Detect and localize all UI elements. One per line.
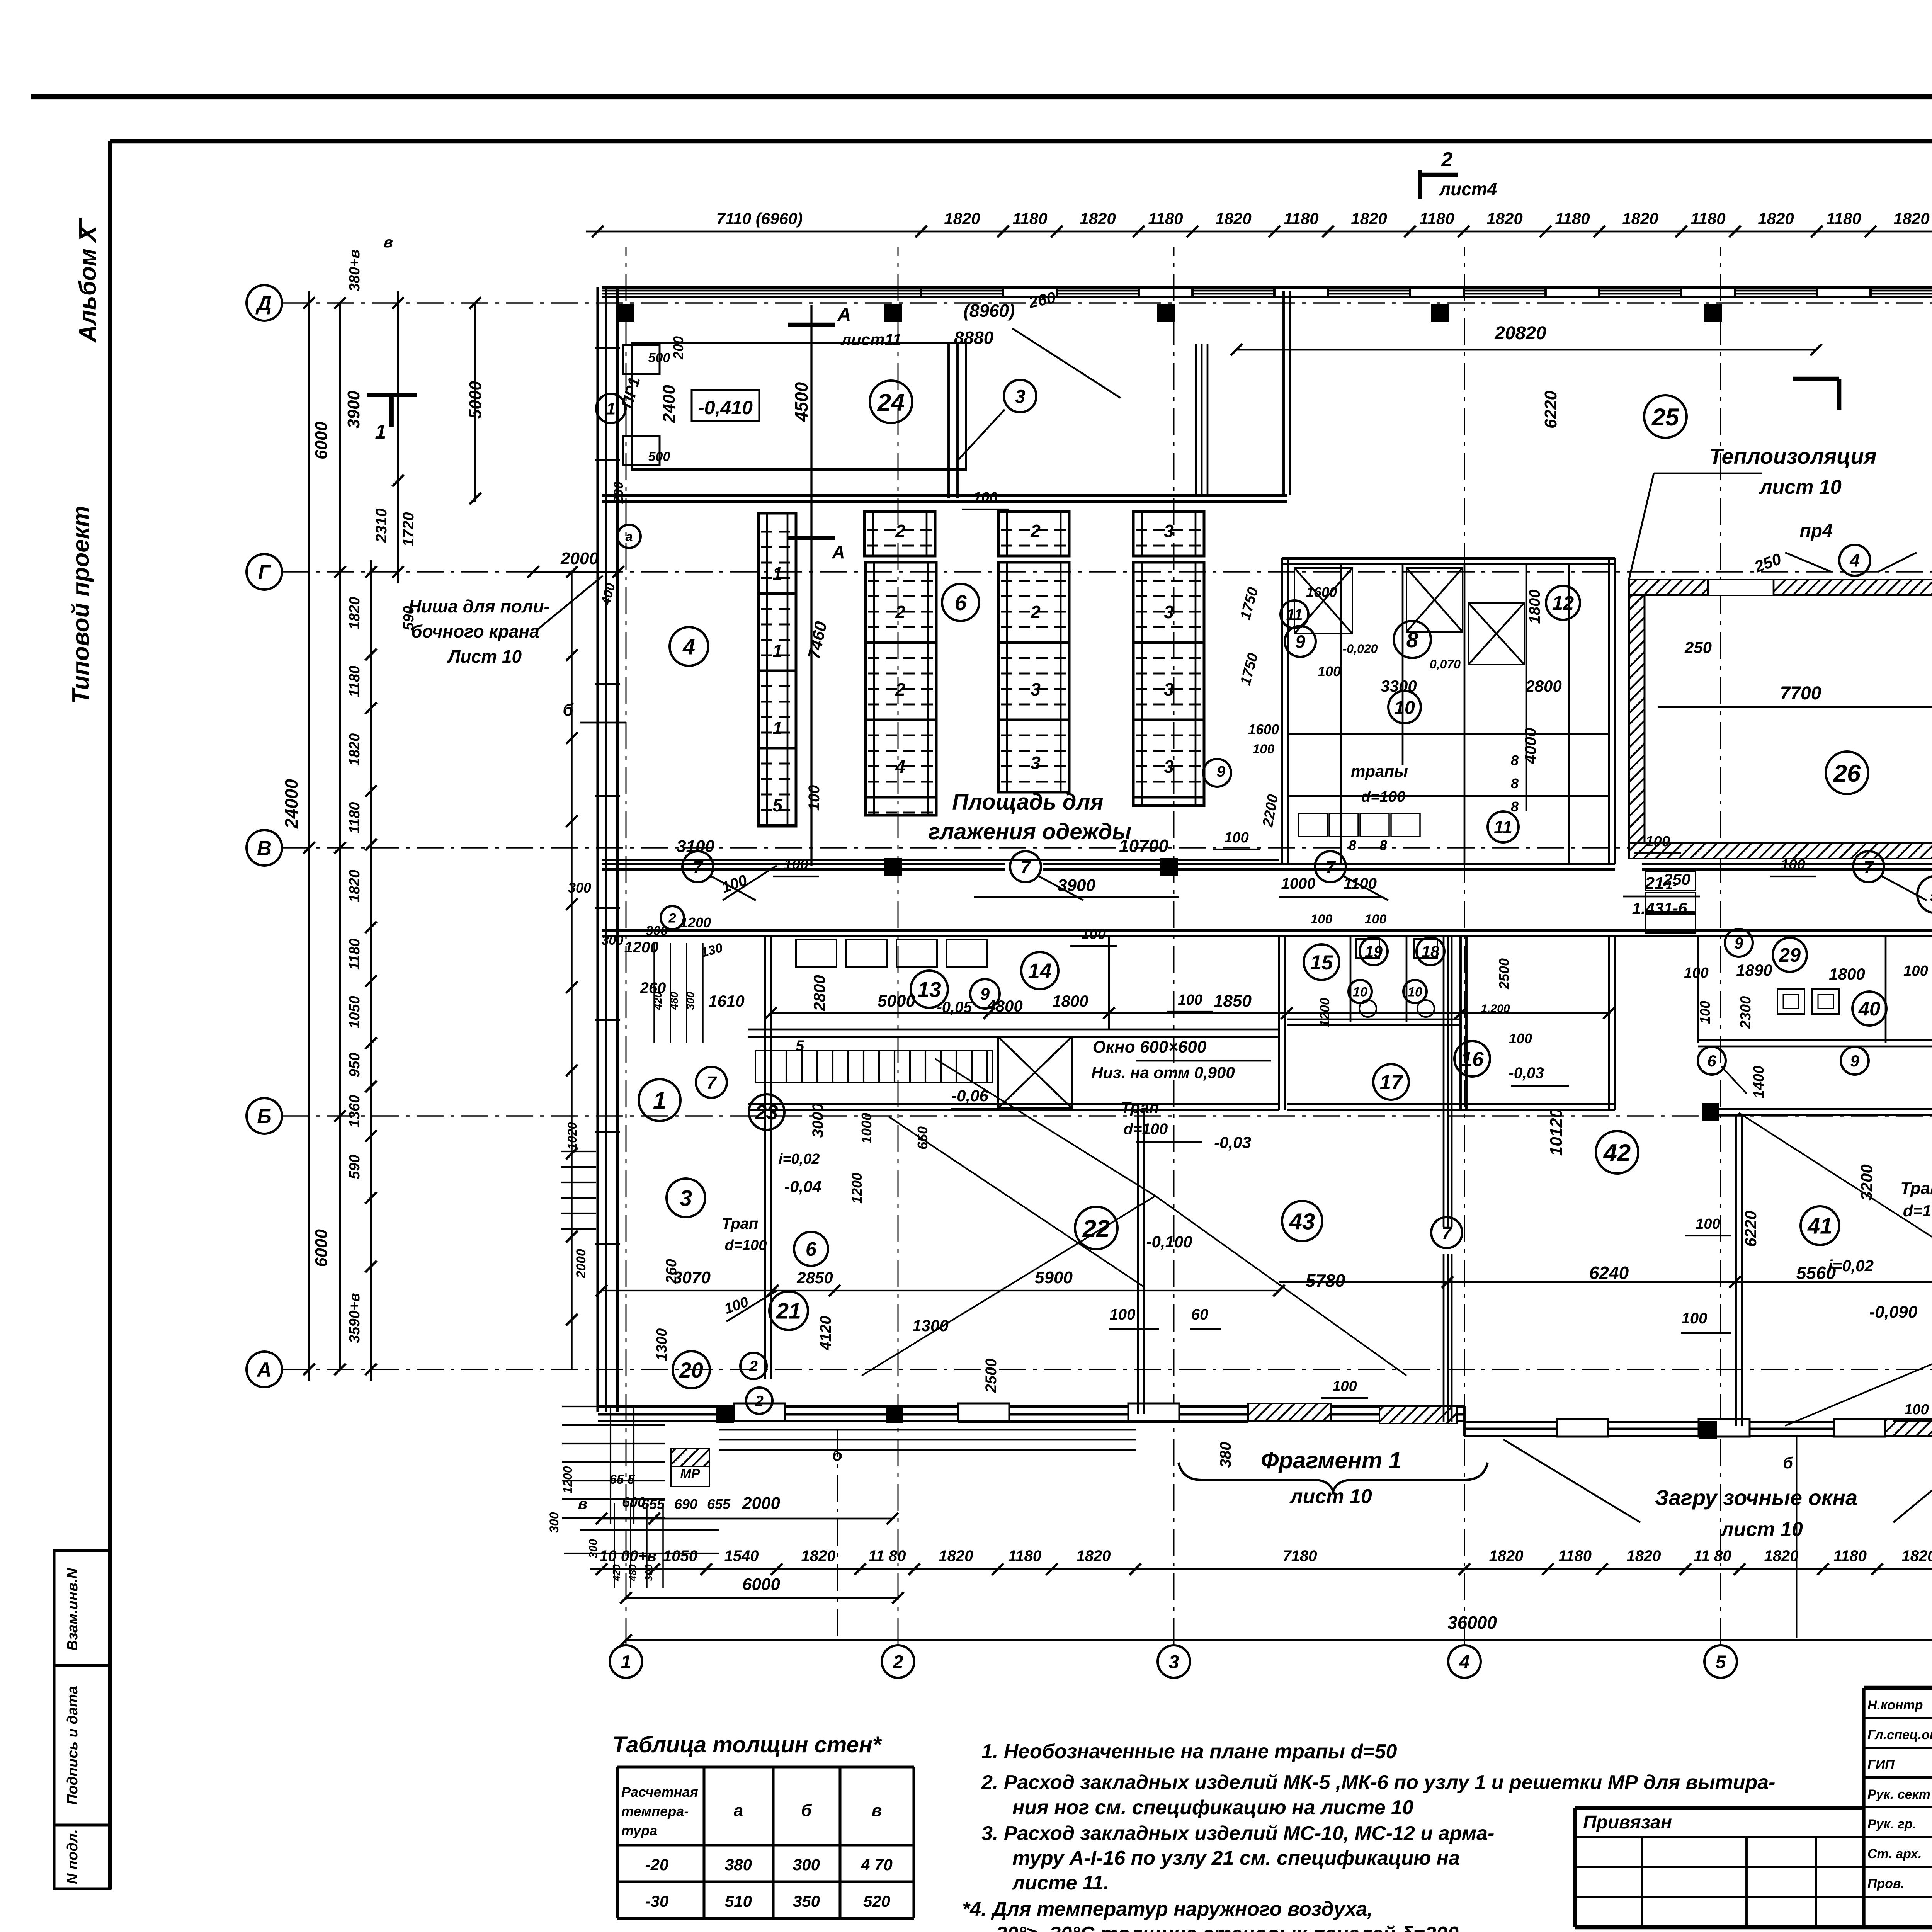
svg-text:300: 300 bbox=[587, 1539, 600, 1558]
sink row room 13 bbox=[796, 940, 837, 967]
svg-text:1180: 1180 bbox=[1833, 1548, 1867, 1565]
top exterior wall glazing band bbox=[602, 286, 1932, 289]
svg-text:2: 2 bbox=[1030, 602, 1041, 622]
top dimension chain bbox=[586, 231, 1932, 233]
svg-text:1180: 1180 bbox=[347, 666, 363, 697]
svg-text:Окно 600×600: Окно 600×600 bbox=[1093, 1037, 1207, 1056]
svg-text:20820: 20820 bbox=[1494, 323, 1546, 344]
svg-text:8: 8 bbox=[1406, 628, 1418, 652]
svg-text:600: 600 bbox=[622, 1494, 645, 1510]
svg-text:100: 100 bbox=[1332, 1378, 1357, 1395]
svg-text:2: 2 bbox=[749, 1358, 758, 1375]
svg-text:7700: 7700 bbox=[1780, 683, 1821, 704]
svg-text:2850: 2850 bbox=[796, 1269, 833, 1287]
bottom chain row B 6000 bbox=[626, 1597, 898, 1599]
wall between halls and room 25 bbox=[1282, 291, 1285, 495]
svg-text:Д: Д bbox=[255, 292, 272, 315]
svg-text:65 5: 65 5 bbox=[609, 1472, 635, 1487]
svg-text:15: 15 bbox=[1310, 951, 1333, 974]
svg-text:А: А bbox=[832, 542, 845, 562]
svg-text:10: 10 bbox=[1408, 985, 1422, 999]
svg-text:1: 1 bbox=[772, 718, 782, 738]
room circles 15-19 bbox=[1304, 944, 1339, 980]
svg-text:-20: -20 bbox=[645, 1855, 669, 1874]
axis letter A bbox=[247, 1352, 282, 1387]
svg-text:1180: 1180 bbox=[347, 939, 363, 970]
svg-text:8880: 8880 bbox=[954, 328, 994, 348]
svg-text:100: 100 bbox=[1904, 1401, 1929, 1418]
svg-text:2800: 2800 bbox=[1525, 677, 1561, 695]
svg-text:2300: 2300 bbox=[1738, 996, 1754, 1029]
svg-text:6000: 6000 bbox=[312, 422, 331, 459]
svg-text:1800: 1800 bbox=[1526, 590, 1543, 624]
svg-text:10 00+в: 10 00+в bbox=[599, 1548, 656, 1565]
svg-text:4500: 4500 bbox=[791, 382, 811, 422]
svg-text:i=0,02: i=0,02 bbox=[1828, 1257, 1874, 1275]
svg-text:ГИП: ГИП bbox=[1867, 1757, 1895, 1772]
svg-text:(8960): (8960) bbox=[964, 301, 1015, 321]
svg-text:43: 43 bbox=[1289, 1209, 1315, 1235]
svg-text:1200: 1200 bbox=[561, 1466, 575, 1493]
svg-text:1820: 1820 bbox=[1622, 209, 1658, 228]
svg-text:Г: Г bbox=[258, 561, 272, 584]
svg-text:1050: 1050 bbox=[347, 996, 363, 1029]
svg-text:7: 7 bbox=[706, 1073, 717, 1093]
svg-text:6220: 6220 bbox=[1742, 1211, 1760, 1247]
svg-text:100: 100 bbox=[784, 857, 808, 873]
room circles lower-left bbox=[911, 971, 948, 1008]
svg-text:6: 6 bbox=[955, 591, 967, 615]
svg-text:42: 42 bbox=[1603, 1139, 1631, 1167]
svg-text:Трап: Трап bbox=[1900, 1179, 1932, 1198]
svg-text:3: 3 bbox=[1164, 602, 1174, 622]
svg-text:2800: 2800 bbox=[810, 975, 828, 1011]
svg-text:2: 2 bbox=[895, 679, 905, 699]
ramp marks lower middle bbox=[958, 1421, 1248, 1423]
svg-text:3: 3 bbox=[1015, 386, 1026, 407]
svg-text:41: 41 bbox=[1807, 1214, 1832, 1239]
svg-text:ния ног см. спецификацию на л: ния ног см. спецификацию на листе 10 bbox=[1012, 1796, 1413, 1819]
mid dim line lower bbox=[1279, 1281, 1932, 1283]
svg-text:300: 300 bbox=[684, 992, 696, 1010]
svg-text:1,200: 1,200 bbox=[1481, 1002, 1510, 1015]
svg-text:Подпись и дата: Подпись и дата bbox=[65, 1686, 81, 1805]
svg-text:Рук. гр.: Рук. гр. bbox=[1867, 1817, 1916, 1832]
svg-text:10: 10 bbox=[1353, 985, 1367, 999]
title block outer bbox=[1864, 1686, 1932, 1690]
svg-text:2. Расход закладных изделий МК: 2. Расход закладных изделий МК-5 ,МК-6 п… bbox=[981, 1771, 1775, 1794]
svg-text:60: 60 bbox=[1191, 1306, 1209, 1323]
svg-text:8: 8 bbox=[1511, 776, 1519, 791]
svg-text:1: 1 bbox=[772, 641, 782, 661]
room 41 top wall bbox=[1719, 1108, 1932, 1110]
svg-text:8: 8 bbox=[1511, 799, 1519, 815]
svg-text:7: 7 bbox=[1864, 857, 1874, 877]
left middle chain window dims bbox=[370, 560, 372, 1381]
svg-text:1: 1 bbox=[621, 1651, 631, 1672]
svg-text:25: 25 bbox=[1651, 404, 1679, 431]
room 24 bbox=[632, 343, 966, 469]
crossed box near stairs bbox=[998, 1037, 1072, 1108]
bottom chain row A bbox=[590, 1568, 1932, 1570]
svg-text:б: б bbox=[1783, 1454, 1793, 1472]
svg-text:темпера-: темпера- bbox=[621, 1803, 689, 1819]
svg-text:4: 4 bbox=[682, 635, 695, 660]
svg-text:Рук. сект: Рук. сект bbox=[1867, 1787, 1930, 1802]
svg-text:100: 100 bbox=[1318, 663, 1341, 679]
svg-text:2: 2 bbox=[895, 602, 905, 622]
corridor wall y2674 bbox=[748, 1029, 1279, 1031]
pier right of room 24 bbox=[947, 344, 950, 498]
bottom axis circles 1-7 bbox=[610, 1645, 642, 1678]
svg-text:1800: 1800 bbox=[1829, 965, 1865, 983]
svg-text:-20°≥ -30°С толщина стеновых п: -20°≥ -30°С толщина стеновых панелей δ=3… bbox=[989, 1923, 1464, 1932]
svg-text:1000: 1000 bbox=[859, 1113, 874, 1144]
svg-text:3: 3 bbox=[1031, 753, 1041, 773]
svg-text:2: 2 bbox=[1030, 521, 1041, 541]
svg-text:-0,410: -0,410 bbox=[698, 397, 753, 418]
svg-text:лист11: лист11 bbox=[840, 330, 901, 349]
svg-text:380: 380 bbox=[725, 1855, 752, 1874]
svg-text:2: 2 bbox=[893, 1651, 903, 1672]
axis letter V bbox=[247, 830, 282, 866]
bottom chain row C 36000 bbox=[626, 1639, 1932, 1641]
svg-text:3: 3 bbox=[1164, 757, 1174, 777]
room 12 cell strip bbox=[1645, 871, 1696, 891]
svg-text:7110 (6960): 7110 (6960) bbox=[716, 209, 803, 228]
svg-text:1600: 1600 bbox=[1306, 584, 1337, 600]
svg-text:1180: 1180 bbox=[1008, 1548, 1041, 1565]
svg-text:100: 100 bbox=[1311, 912, 1333, 927]
svg-text:Трап: Трап bbox=[722, 1215, 759, 1232]
svg-text:11 80: 11 80 bbox=[868, 1548, 906, 1565]
porch pads top left bbox=[623, 345, 660, 374]
svg-text:2: 2 bbox=[755, 1393, 764, 1410]
wc fixtures bbox=[1359, 1000, 1376, 1017]
svg-text:Низ. на отм 0,900: Низ. на отм 0,900 bbox=[1091, 1063, 1235, 1082]
svg-text:100: 100 bbox=[1081, 926, 1105, 942]
fragment 1 label with brace bbox=[1179, 1463, 1488, 1492]
svg-text:1600: 1600 bbox=[1248, 721, 1279, 737]
svg-text:300: 300 bbox=[793, 1855, 820, 1874]
svg-text:бочного крана: бочного крана bbox=[411, 621, 539, 641]
axis letter D bbox=[247, 285, 282, 321]
horizontal axis dash lines bbox=[282, 302, 1932, 304]
svg-text:300: 300 bbox=[602, 933, 624, 948]
vertical shaft lines at 8880 bbox=[1195, 344, 1197, 495]
svg-text:Площадь для: Площадь для bbox=[952, 789, 1103, 815]
washbasin squares bbox=[1777, 989, 1804, 1014]
svg-text:в: в bbox=[578, 1495, 587, 1512]
wall B lower block top bbox=[602, 929, 1932, 932]
svg-text:-30: -30 bbox=[645, 1892, 669, 1910]
svg-text:380: 380 bbox=[1217, 1442, 1234, 1468]
svg-text:5900: 5900 bbox=[1035, 1268, 1073, 1287]
svg-text:d=100: d=100 bbox=[1124, 1121, 1168, 1138]
svg-text:100: 100 bbox=[1696, 1216, 1720, 1232]
svg-text:1820: 1820 bbox=[1764, 1548, 1799, 1565]
svg-text:11 80: 11 80 bbox=[1694, 1548, 1731, 1565]
svg-text:3100: 3100 bbox=[677, 837, 714, 856]
svg-text:1180: 1180 bbox=[1826, 209, 1861, 228]
svg-text:Альбом X: Альбом X bbox=[75, 224, 101, 343]
svg-text:1800: 1800 bbox=[1052, 992, 1088, 1010]
svg-text:1820: 1820 bbox=[1489, 1548, 1524, 1565]
svg-text:100: 100 bbox=[1178, 992, 1202, 1008]
svg-text:1180: 1180 bbox=[1012, 209, 1047, 228]
svg-text:4: 4 bbox=[1459, 1651, 1470, 1672]
svg-text:100: 100 bbox=[1645, 833, 1670, 850]
crossed boxes bbox=[1294, 568, 1352, 634]
svg-text:690: 690 bbox=[674, 1496, 697, 1512]
svg-text:950: 950 bbox=[347, 1053, 363, 1077]
svg-text:24: 24 bbox=[877, 389, 905, 416]
svg-text:2: 2 bbox=[668, 911, 676, 925]
svg-text:пр4: пр4 bbox=[1799, 521, 1832, 541]
axis letter G bbox=[247, 554, 282, 590]
svg-text:7180: 7180 bbox=[1283, 1548, 1317, 1565]
left margin stamp strip bbox=[54, 1551, 110, 1889]
rooms 15-18 block walls bbox=[1287, 1103, 1615, 1105]
svg-text:4 70: 4 70 bbox=[861, 1855, 893, 1874]
svg-text:21: 21 bbox=[1645, 874, 1664, 893]
column squares on wall axis V bbox=[884, 858, 902, 876]
svg-text:лист4: лист4 bbox=[1439, 179, 1497, 199]
svg-text:Расчетная: Расчетная bbox=[621, 1784, 698, 1800]
svg-text:200: 200 bbox=[611, 482, 626, 504]
svg-text:i=0,02: i=0,02 bbox=[779, 1151, 820, 1167]
wall between 22 and 43 bbox=[1137, 1110, 1139, 1414]
small dim grid left outside bbox=[653, 943, 655, 1043]
svg-text:9: 9 bbox=[1295, 632, 1305, 652]
left inner chain bbox=[397, 291, 399, 583]
svg-text:Трап: Трап bbox=[1121, 1098, 1159, 1116]
svg-text:5: 5 bbox=[1930, 883, 1932, 907]
svg-text:6000: 6000 bbox=[312, 1229, 331, 1267]
svg-text:А: А bbox=[837, 304, 851, 325]
svg-text:100: 100 bbox=[1903, 963, 1928, 979]
rooms 13 14 block walls bbox=[1108, 936, 1110, 1029]
svg-text:в: в bbox=[384, 234, 393, 251]
svg-text:1100: 1100 bbox=[1344, 875, 1377, 892]
svg-text:5: 5 bbox=[796, 1037, 804, 1054]
svg-text:1: 1 bbox=[606, 400, 616, 418]
svg-text:1050: 1050 bbox=[663, 1548, 697, 1565]
left MR block bbox=[671, 1449, 709, 1486]
left exterior wall bbox=[596, 287, 599, 1412]
svg-text:тура: тура bbox=[621, 1823, 657, 1838]
svg-text:420: 420 bbox=[611, 1564, 622, 1582]
diagonal floor slope lines room 21-22 bbox=[862, 1196, 1155, 1376]
svg-text:14: 14 bbox=[1028, 959, 1051, 983]
svg-text:5: 5 bbox=[1716, 1651, 1726, 1672]
bottom wall window openings bbox=[734, 1403, 785, 1421]
top wall column squares bbox=[617, 304, 634, 322]
svg-text:Привязан: Привязан bbox=[1583, 1812, 1672, 1833]
svg-text:трапы: трапы bbox=[1351, 762, 1408, 780]
svg-text:4000: 4000 bbox=[1521, 728, 1539, 764]
svg-text:24000: 24000 bbox=[281, 779, 301, 829]
left bottom entrance steps bbox=[562, 1406, 665, 1407]
svg-text:Загру зочные окна: Загру зочные окна bbox=[1655, 1485, 1857, 1510]
room 26 insulated walls bbox=[1629, 580, 1932, 595]
corner mark room 25 bbox=[1793, 377, 1839, 381]
svg-text:глажения одежды: глажения одежды bbox=[928, 819, 1131, 844]
svg-text:40: 40 bbox=[1858, 998, 1880, 1020]
svg-text:Ст. арх.: Ст. арх. bbox=[1867, 1847, 1922, 1861]
sheet ref mark 2/list4 top bbox=[1418, 170, 1422, 199]
svg-text:Н.контр: Н.контр bbox=[1867, 1698, 1923, 1713]
svg-text:Взам.инв.N: Взам.инв.N bbox=[65, 1568, 81, 1651]
svg-text:260: 260 bbox=[663, 1259, 680, 1284]
svg-text:26: 26 bbox=[1833, 760, 1861, 787]
svg-text:1540: 1540 bbox=[724, 1548, 759, 1565]
svg-text:3000: 3000 bbox=[810, 1104, 827, 1138]
svg-text:1180: 1180 bbox=[1419, 209, 1454, 228]
svg-text:1180: 1180 bbox=[347, 802, 363, 834]
svg-text:1. Необозначенные на плане: 1. Необозначенные на плане трапы d=50 bbox=[981, 1740, 1397, 1763]
bottom exterior wall right part bbox=[1464, 1421, 1932, 1423]
top rule line bbox=[31, 94, 1932, 99]
svg-text:d=100: d=100 bbox=[1903, 1202, 1932, 1220]
svg-text:5: 5 bbox=[772, 795, 783, 815]
svg-text:3: 3 bbox=[1031, 679, 1041, 699]
svg-text:Гл.спец.отд: Гл.спец.отд bbox=[1867, 1728, 1932, 1742]
svg-text:8: 8 bbox=[1349, 837, 1356, 853]
room 41 labels bbox=[1801, 1206, 1839, 1245]
section mark A room 24 bbox=[810, 305, 812, 866]
svg-text:29: 29 bbox=[1779, 944, 1801, 966]
svg-text:d=100: d=100 bbox=[725, 1237, 767, 1253]
svg-text:6: 6 bbox=[806, 1238, 817, 1260]
svg-text:2: 2 bbox=[1441, 148, 1453, 171]
svg-text:380+в: 380+в bbox=[347, 250, 363, 292]
svg-text:100: 100 bbox=[1781, 857, 1805, 873]
svg-text:9: 9 bbox=[1734, 934, 1743, 952]
svg-text:1820: 1820 bbox=[347, 733, 363, 766]
wet block circles bbox=[1285, 626, 1316, 657]
stair tick band bbox=[755, 1051, 992, 1082]
bench bars group bbox=[759, 513, 796, 826]
svg-text:9: 9 bbox=[1217, 763, 1226, 780]
svg-text:4: 4 bbox=[895, 757, 905, 777]
svg-text:1200: 1200 bbox=[624, 939, 659, 956]
svg-text:листе 11.: листе 11. bbox=[1011, 1872, 1109, 1894]
svg-text:16: 16 bbox=[1461, 1048, 1484, 1071]
bottom exterior wall left part bbox=[598, 1405, 1464, 1408]
a circle top left bbox=[617, 525, 641, 548]
svg-text:1180: 1180 bbox=[1555, 209, 1590, 228]
svg-text:200: 200 bbox=[670, 336, 686, 360]
svg-text:100: 100 bbox=[1697, 1001, 1713, 1024]
wall axis V long horizontal bbox=[602, 863, 1005, 865]
svg-text:туру А-I-16 по узлу 21 см. сп: туру А-I-16 по узлу 21 см. спецификацию … bbox=[1012, 1847, 1460, 1869]
room block top wall y2408 done; left rooms partitions bbox=[764, 936, 766, 1379]
svg-text:1000: 1000 bbox=[1281, 875, 1316, 892]
svg-text:3. Расход закладных изделий: 3. Расход закладных изделий МС-10, МС-12… bbox=[981, 1822, 1494, 1845]
svg-text:300: 300 bbox=[643, 1564, 655, 1581]
svg-text:2500: 2500 bbox=[1496, 958, 1512, 990]
svg-text:1610: 1610 bbox=[708, 992, 744, 1010]
svg-text:250: 250 bbox=[1684, 638, 1712, 656]
svg-text:1720: 1720 bbox=[400, 512, 417, 547]
svg-text:МР: МР bbox=[680, 1466, 700, 1481]
svg-text:1820: 1820 bbox=[801, 1548, 836, 1565]
svg-text:В: В bbox=[257, 837, 272, 860]
svg-text:2000: 2000 bbox=[574, 1249, 588, 1279]
wet block outer walls bbox=[1282, 557, 1615, 560]
svg-text:23: 23 bbox=[755, 1101, 778, 1124]
svg-text:6: 6 bbox=[1707, 1052, 1716, 1070]
svg-text:20: 20 bbox=[679, 1358, 703, 1382]
svg-text:100: 100 bbox=[1684, 965, 1708, 981]
svg-text:4: 4 bbox=[1849, 551, 1860, 571]
svg-text:2000: 2000 bbox=[742, 1494, 780, 1513]
svg-text:Ниша для поли-: Ниша для поли- bbox=[408, 596, 550, 616]
svg-text:3300: 3300 bbox=[1381, 677, 1417, 695]
svg-text:лист 10: лист 10 bbox=[1720, 1518, 1803, 1541]
room 25 circle bbox=[1644, 395, 1687, 438]
bottom wall column squares bbox=[716, 1405, 734, 1423]
axis letter B bbox=[247, 1098, 282, 1134]
svg-text:6240: 6240 bbox=[1589, 1263, 1629, 1283]
svg-text:510: 510 bbox=[725, 1892, 752, 1910]
svg-text:1820: 1820 bbox=[347, 597, 363, 630]
svg-text:1180: 1180 bbox=[1284, 209, 1318, 228]
svg-text:1180: 1180 bbox=[1690, 209, 1725, 228]
bottom wall loading window hatched blocks bbox=[1248, 1403, 1331, 1420]
svg-text:1: 1 bbox=[375, 421, 386, 443]
svg-text:б: б bbox=[801, 1801, 812, 1820]
svg-text:3: 3 bbox=[1169, 1651, 1179, 1672]
svg-text:0,070: 0,070 bbox=[1430, 657, 1461, 671]
svg-text:11: 11 bbox=[1494, 817, 1512, 837]
svg-text:260: 260 bbox=[640, 980, 666, 997]
svg-text:6220: 6220 bbox=[1541, 391, 1560, 429]
wall thickness table bbox=[616, 1767, 619, 1918]
svg-text:3590+в: 3590+в bbox=[347, 1293, 363, 1343]
svg-text:лист 10: лист 10 bbox=[1759, 476, 1842, 498]
svg-text:Теплоизоляция: Теплоизоляция bbox=[1709, 444, 1876, 468]
svg-text:1820: 1820 bbox=[1077, 1548, 1111, 1565]
svg-text:1400: 1400 bbox=[1751, 1066, 1767, 1099]
svg-text:590: 590 bbox=[347, 1155, 363, 1179]
svg-text:3: 3 bbox=[1164, 679, 1174, 699]
svg-text:d=100: d=100 bbox=[1361, 788, 1406, 805]
svg-text:-0,020: -0,020 bbox=[1343, 642, 1378, 656]
svg-text:-0,100: -0,100 bbox=[1146, 1233, 1192, 1251]
svg-text:*4. Для температур наружного: *4. Для температур наружного воздуха, bbox=[962, 1898, 1373, 1920]
svg-text:5780: 5780 bbox=[1306, 1270, 1345, 1291]
svg-text:1820: 1820 bbox=[1215, 209, 1251, 228]
svg-text:-0,04: -0,04 bbox=[784, 1177, 821, 1196]
svg-text:100: 100 bbox=[1253, 742, 1275, 757]
svg-text:1360: 1360 bbox=[347, 1095, 363, 1128]
svg-text:11: 11 bbox=[1286, 606, 1303, 624]
inner frame left border bbox=[108, 141, 112, 1889]
inner frame top border bbox=[110, 139, 1932, 144]
svg-text:100: 100 bbox=[1509, 1031, 1532, 1046]
svg-text:1820: 1820 bbox=[347, 870, 363, 903]
svg-text:3900: 3900 bbox=[344, 391, 363, 429]
svg-text:8: 8 bbox=[1379, 837, 1387, 853]
svg-text:Пров.: Пров. bbox=[1867, 1876, 1905, 1891]
svg-text:21: 21 bbox=[776, 1299, 801, 1324]
svg-text:1820: 1820 bbox=[939, 1548, 973, 1565]
svg-text:2000: 2000 bbox=[560, 549, 599, 568]
room 43 circle bbox=[1282, 1201, 1322, 1241]
svg-text:2400: 2400 bbox=[660, 385, 679, 423]
